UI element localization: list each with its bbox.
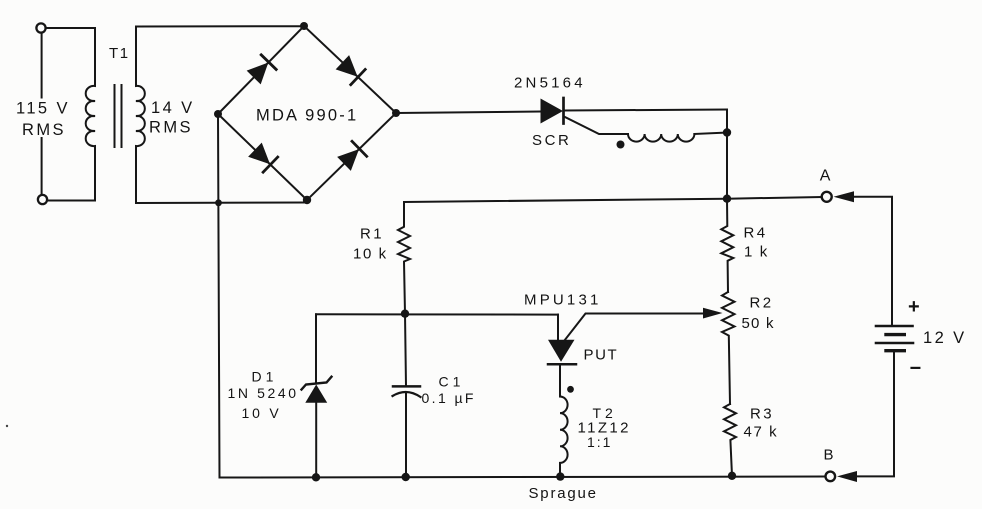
svg-text:14 V: 14 V — [151, 99, 195, 117]
svg-text:2N5164: 2N5164 — [514, 75, 586, 92]
svg-text:R2: R2 — [750, 295, 774, 312]
svg-text:1:1: 1:1 — [587, 434, 612, 450]
speck artifact — [6, 425, 8, 427]
wire zener node horizontal — [316, 313, 558, 315]
svg-text:−: − — [910, 358, 923, 380]
svg-text:B: B — [824, 447, 836, 464]
SCR 2N5164 — [541, 98, 564, 124]
capacitor C1 0.1uF — [393, 314, 421, 477]
node junction A-row — [723, 195, 731, 203]
svg-text:MDA 990-1: MDA 990-1 — [256, 107, 358, 125]
svg-text:RMS: RMS — [149, 119, 193, 137]
diode D-bridge-2 top-right — [335, 55, 365, 85]
potentiometer R2 50k — [722, 292, 735, 404]
node bridge top vertex — [300, 22, 308, 30]
wire — [48, 200, 96, 202]
transformer T1 primary winding — [86, 28, 95, 201]
terminal J2 bottom input — [38, 195, 47, 204]
inductor T2 primary winding — [628, 134, 694, 142]
inductor T2 secondary winding — [560, 397, 568, 477]
node bridge bottom vertex — [303, 196, 311, 204]
ground rail wire bottom — [220, 477, 826, 478]
svg-text:T1: T1 — [109, 45, 130, 62]
wire B to battery bottom — [856, 351, 894, 477]
wire bridge right vertex to SCR anode — [396, 112, 540, 114]
bridge rectifier MDA 990-1 diamond — [218, 26, 396, 200]
svg-text:C1: C1 — [439, 374, 465, 390]
terminal A node — [822, 192, 832, 202]
node bridge left vertex — [214, 110, 222, 118]
arrowhead into B — [837, 471, 857, 482]
resistor R4 1k — [721, 199, 733, 292]
terminal B node — [826, 472, 836, 482]
svg-text:12 V: 12 V — [923, 329, 967, 347]
node junction T2 ground — [556, 472, 564, 480]
diode D-bridge-1 top-left — [246, 55, 276, 85]
phasing dot T2 primary — [617, 141, 625, 149]
node junction R1/C1 — [401, 310, 409, 318]
wire secondary top to bridge — [136, 25, 302, 27]
svg-text:10 V: 10 V — [242, 405, 282, 421]
svg-text:D1: D1 — [252, 369, 278, 385]
diode D-bridge-3 bottom-left — [248, 142, 278, 172]
svg-text:1N 5240: 1N 5240 — [228, 385, 299, 401]
svg-text:1 k: 1 k — [744, 244, 769, 261]
arrowhead into A — [834, 191, 855, 202]
battery BT1 12V — [876, 326, 913, 351]
arrowhead PUT gate to R2 wiper — [703, 308, 723, 319]
svg-text:47 k: 47 k — [744, 424, 779, 441]
PUT MPU131 — [548, 314, 704, 397]
wire bridge left vertex down to ground rail — [218, 114, 220, 478]
diode D-bridge-4 bottom-right — [337, 141, 367, 171]
node junction D1 ground — [312, 473, 320, 481]
node junction R3 ground — [728, 472, 736, 480]
wire — [46, 27, 95, 29]
svg-text:SCR: SCR — [532, 132, 571, 149]
transformer T1 core — [115, 85, 122, 147]
resistor R3 47k — [724, 404, 736, 476]
svg-text:R3: R3 — [750, 406, 774, 423]
svg-text:50 k: 50 k — [742, 315, 775, 332]
phasing dot T2 secondary — [567, 386, 574, 393]
wire coil to junction — [694, 133, 727, 135]
wire SCR cathode to right corner — [564, 110, 727, 111]
transformer T1 secondary winding — [136, 27, 145, 204]
svg-text:PUT: PUT — [584, 347, 619, 364]
svg-text:+: + — [908, 296, 921, 318]
svg-text:0.1 µF: 0.1 µF — [422, 390, 476, 406]
node bridge right vertex — [392, 109, 400, 117]
wire SCR gate — [564, 117, 628, 135]
svg-text:A: A — [820, 168, 832, 185]
svg-text:R1: R1 — [360, 226, 384, 243]
node junction at x=218 y=203 — [215, 199, 222, 206]
svg-text:RMS: RMS — [22, 121, 66, 139]
node junction C1 ground — [402, 473, 410, 481]
wire — [41, 34, 43, 195]
terminal J1 top input — [36, 23, 45, 32]
svg-text:Sprague: Sprague — [529, 485, 598, 502]
node junction coil out — [723, 128, 731, 136]
wire vertical at x=727 — [726, 110, 728, 199]
svg-text:115 V: 115 V — [16, 100, 70, 118]
wire A to battery top — [853, 197, 892, 326]
svg-text:R4: R4 — [744, 225, 768, 242]
svg-text:MPU131: MPU131 — [524, 292, 602, 309]
wire secondary bottom to bridge — [136, 202, 305, 205]
zener diode D1 1N5240 — [302, 314, 332, 477]
resistor R1 10k — [398, 202, 410, 314]
wire R1 top to A-row junction — [404, 197, 822, 202]
svg-text:10 k: 10 k — [353, 246, 388, 263]
